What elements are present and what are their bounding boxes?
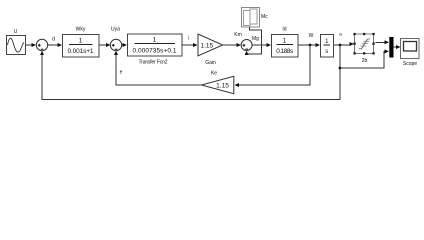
wire sum2 to Transfer Fcn2 <box>122 43 127 47</box>
svg-text:Scope: Scope <box>403 61 417 67</box>
svg-text:0.001s+1: 0.001s+1 <box>68 48 94 55</box>
wire Gain to sum3 <box>223 43 241 47</box>
svg-text:Transfer Fcn2: Transfer Fcn2 <box>139 60 168 66</box>
svg-text:s: s <box>325 49 328 55</box>
svg-text:W: W <box>309 33 314 39</box>
backlash block 2b (selected) <box>353 33 374 64</box>
wire Mc to sum3 (crosses main line) <box>245 27 262 55</box>
transfer function Wky <box>63 27 100 58</box>
svg-text:1: 1 <box>79 38 83 45</box>
selection handles of 2b <box>353 33 374 55</box>
wire sum1 to Wky <box>48 43 62 47</box>
signal generator U <box>7 29 26 55</box>
wire Wky to sum2 <box>99 43 111 47</box>
scope Scope <box>401 39 420 68</box>
gain Gain 1.15 <box>198 34 223 66</box>
svg-text:U: U <box>14 29 18 35</box>
wire mux to scope <box>393 45 400 49</box>
wire 2b to mux input 1 <box>376 40 390 44</box>
svg-text:e: e <box>120 70 123 76</box>
svg-text:Uya: Uya <box>111 27 120 33</box>
svg-text:Km: Km <box>234 32 242 38</box>
svg-text:1: 1 <box>283 38 287 45</box>
wire sum3 to Id <box>252 43 271 47</box>
svg-text:Id: Id <box>282 27 286 33</box>
wire W feedback down to Ke <box>235 45 311 87</box>
sum junction Uya <box>110 27 121 51</box>
svg-text:i: i <box>188 36 189 42</box>
svg-text:Mc: Mc <box>261 14 268 20</box>
svg-text:d: d <box>52 37 55 43</box>
svg-text:Gain: Gain <box>205 60 216 66</box>
svg-text:0.188s: 0.188s <box>276 48 294 55</box>
wire Ke to sum2 bottom <box>114 51 202 85</box>
sum junction 1 <box>36 39 47 50</box>
wire branch to mux input 2 <box>340 49 389 68</box>
svg-text:1: 1 <box>153 37 157 44</box>
svg-text:Wky: Wky <box>76 27 86 33</box>
mux <box>389 37 393 58</box>
sum junction Km/Mg <box>241 40 252 51</box>
wire Id to integrator, junction at W <box>298 43 320 47</box>
step source Mc <box>242 8 269 28</box>
transfer function Transfer Fcn2 <box>128 34 183 66</box>
svg-text:Ke: Ke <box>211 71 217 77</box>
wire U to sum1 <box>26 43 37 47</box>
svg-text:1.15: 1.15 <box>216 82 229 89</box>
svg-text:2b: 2b <box>362 58 368 64</box>
integrator 1/s <box>321 35 334 58</box>
svg-text:Mg: Mg <box>252 36 259 42</box>
svg-text:1.15: 1.15 <box>200 42 213 49</box>
transfer function Id <box>272 27 299 58</box>
gain Ke 1.15 (left pointing) <box>202 71 234 94</box>
svg-text:0.000735s+0.1: 0.000735s+0.1 <box>133 48 177 55</box>
wire integrator to 2b, junction <box>334 42 355 46</box>
wire outer feedback from node a <box>40 45 341 100</box>
wire Transfer Fcn2 to Gain <box>182 43 198 47</box>
